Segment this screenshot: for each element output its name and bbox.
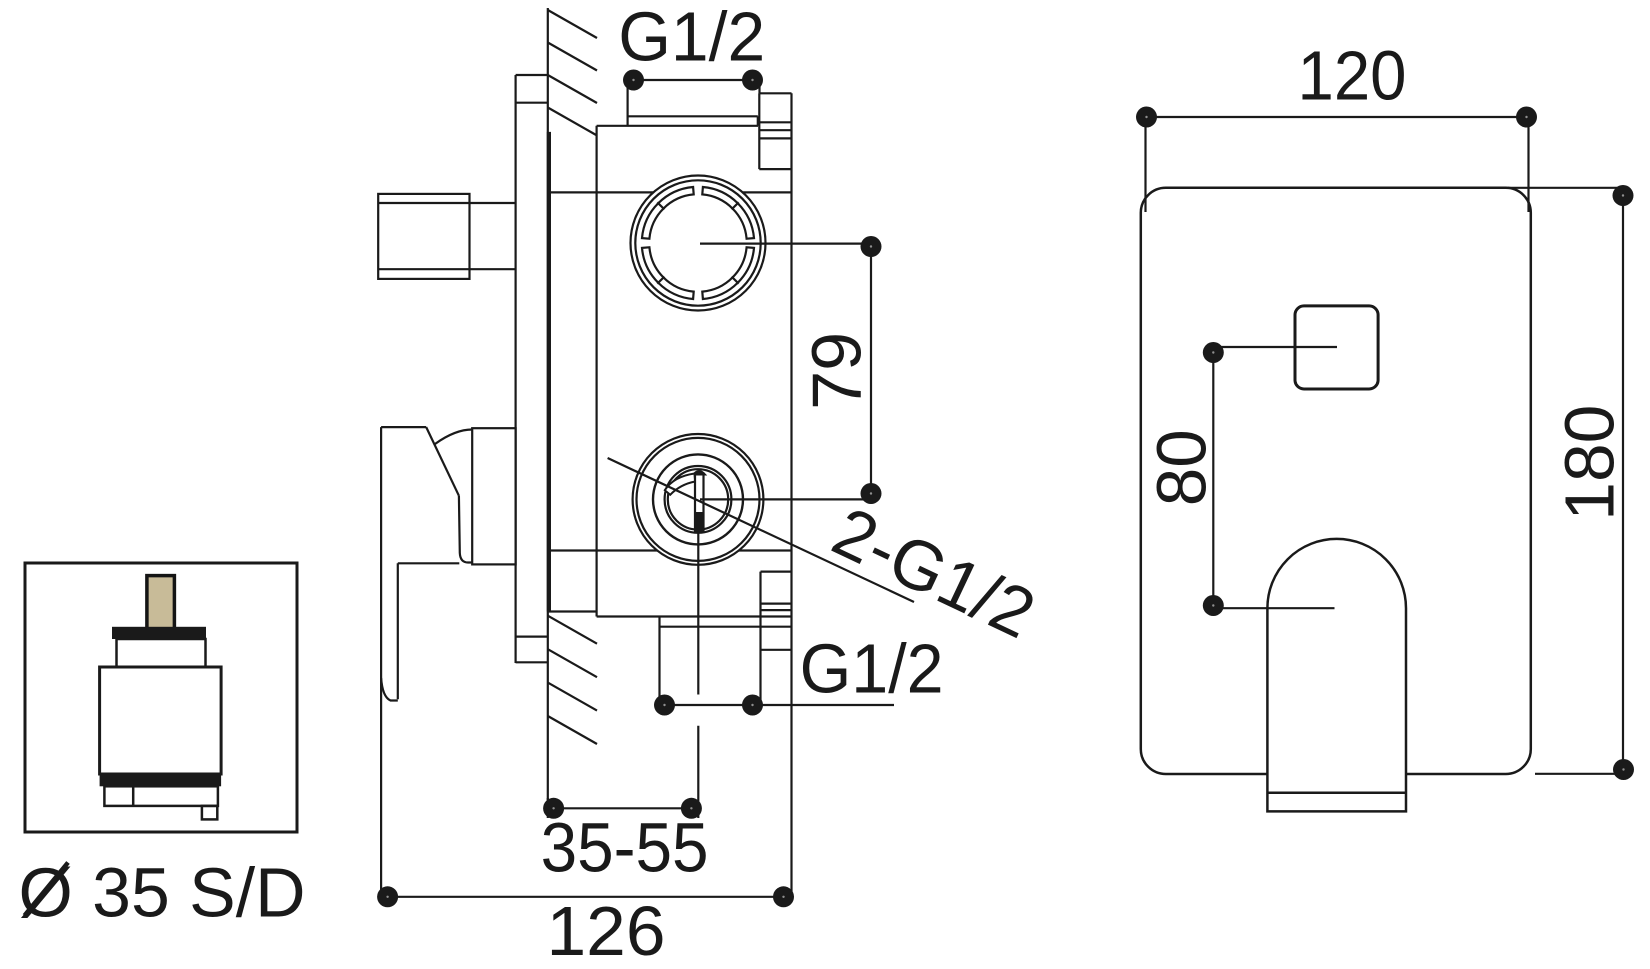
svg-text:180: 180: [1551, 405, 1629, 521]
svg-text:126: 126: [547, 892, 666, 969]
svg-text:80: 80: [1143, 429, 1221, 506]
svg-text:79: 79: [798, 332, 876, 410]
svg-text:G1/2: G1/2: [800, 630, 944, 708]
svg-text:G1/2: G1/2: [618, 0, 765, 76]
svg-text:120: 120: [1298, 37, 1407, 115]
svg-text:35-55: 35-55: [541, 808, 709, 886]
svg-text:Ø 35 S/D: Ø 35 S/D: [19, 854, 306, 932]
